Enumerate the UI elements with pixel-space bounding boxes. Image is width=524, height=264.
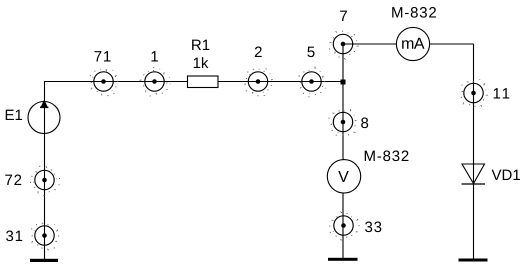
voltage source E1 arrow xyxy=(40,100,48,108)
terminal 1 xyxy=(140,67,171,97)
voltmeter V marking xyxy=(338,171,349,182)
terminal 11 xyxy=(461,79,488,107)
junction node (tee of nodes 5-7-8) xyxy=(341,80,346,85)
terminal 5 xyxy=(298,67,326,98)
wire middle vertical (node 7 down through junction, 8, V meter, 33 to ground) xyxy=(342,44,344,260)
ammeter model label M-832 xyxy=(392,7,436,18)
node label 71 xyxy=(95,51,111,61)
resistor R1 reference label xyxy=(192,40,209,50)
node label 2 xyxy=(255,47,262,57)
ground (diode branch) xyxy=(459,259,488,262)
node label 8 xyxy=(361,118,368,129)
voltage source E1 label xyxy=(6,110,22,120)
ammeter mA marking xyxy=(402,38,424,49)
wire top right horizontal (node 7 through mA meter to right corner) xyxy=(343,43,474,45)
resistor R1 value label 1k xyxy=(194,57,209,68)
ammeter M-832 circle xyxy=(396,27,429,60)
diode VD1 triangle xyxy=(462,164,485,184)
node label 5 xyxy=(307,47,314,57)
terminal 71 xyxy=(90,69,118,96)
ground (voltmeter branch) xyxy=(328,258,358,261)
terminal 72 xyxy=(30,166,60,196)
node label 11 xyxy=(494,88,510,98)
wire top horizontal (nodes 71-1-R1-2-5 to junction) xyxy=(44,81,343,83)
terminal 8 xyxy=(329,109,357,136)
voltage source E1 circle xyxy=(28,102,60,134)
terminal 31 xyxy=(31,223,59,251)
terminal 33 xyxy=(329,211,359,241)
terminal 7 xyxy=(329,31,359,60)
node label 1 xyxy=(151,51,157,61)
voltmeter model label M-832 xyxy=(365,151,409,162)
wire right vertical (corner down through 11 and VD1 to ground) xyxy=(473,44,475,260)
node label 7 xyxy=(340,11,347,21)
terminal 2 xyxy=(244,68,273,96)
node label 72 xyxy=(5,175,21,185)
resistor R1 body xyxy=(188,76,219,88)
node label 31 xyxy=(6,231,22,242)
diode VD1 label xyxy=(492,170,520,180)
wire left vertical (node 71 corner down through E1, 72, 31 to ground) xyxy=(44,82,46,261)
node label 33 xyxy=(365,222,381,233)
ground (E1 branch) xyxy=(30,259,58,262)
diode VD1 cathode bar xyxy=(462,183,486,185)
voltmeter M-832 circle xyxy=(327,160,360,193)
